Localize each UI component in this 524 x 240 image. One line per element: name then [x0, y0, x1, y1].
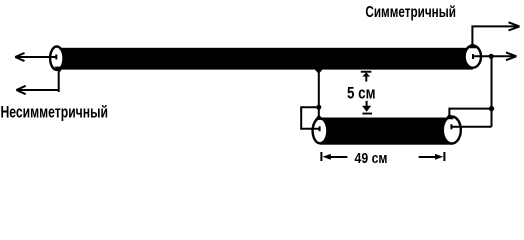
arrowhead left (shield lead)	[16, 86, 25, 94]
junction node (center output / stub feed)	[489, 54, 494, 59]
junction node (stub right shield tie)	[489, 106, 494, 111]
braid wedge (W1 right, shield tap)	[468, 42, 477, 48]
svg-text:49 см: 49 см	[355, 151, 388, 167]
dimension: 5 cm down arrowhead	[362, 106, 371, 112]
braid wedge (W2 right, shield tap)	[445, 113, 454, 119]
coax cable W1 (main line body)	[57, 48, 473, 70]
dimension: 5 cm up arrowhead	[362, 72, 370, 76]
wire: stub right center tie	[451, 126, 491, 128]
coax stub W2 (matching stub body)	[320, 118, 452, 145]
svg-text:5 см: 5 см	[347, 84, 376, 102]
dimension: 5 cm bottom tick	[362, 113, 372, 115]
center conductor tick (stub left)	[319, 126, 321, 131]
cable W1 left end face	[50, 47, 63, 70]
arrowhead right (shield output)	[509, 22, 520, 30]
dimension: 5 cm top tick	[361, 71, 372, 73]
arrowhead right (center output)	[506, 52, 516, 60]
center conductor tick (stub right)	[450, 124, 452, 129]
stub W2 left end face	[313, 118, 328, 143]
junction wedge (on W1 braid)	[315, 69, 323, 74]
dimension: 49 cm left tick	[320, 152, 322, 161]
braid wedge (W2 left, shield tap)	[315, 114, 323, 120]
wire: stub right shield tie	[449, 109, 491, 116]
wire: left center-conductor lead	[15, 56, 56, 58]
wire: right vertical riser	[491, 56, 493, 127]
dimension: 49 cm right arrowhead	[435, 154, 443, 160]
wire: left shield lead	[16, 72, 58, 92]
wire: stub left shield stem	[318, 107, 320, 115]
svg-text:Симметричный: Симметричный	[365, 4, 456, 21]
dimension: 5 cm upper shaft	[365, 76, 367, 82]
center conductor tick (right end)	[472, 54, 474, 59]
arrowhead left (center lead)	[15, 53, 24, 61]
wire: right shield output	[472, 26, 517, 44]
dimension: 49 cm left arrowhead	[323, 154, 331, 160]
wire: right center-conductor output	[473, 55, 514, 57]
svg-text:Несимметричный: Несимметричный	[1, 103, 109, 121]
center conductor tick (left end)	[55, 55, 57, 60]
stub W2 right end face	[443, 117, 461, 144]
dimension: 49 cm left shaft	[329, 156, 347, 158]
wire: stub left center U-link	[301, 107, 319, 129]
cable W1 right end face	[465, 46, 481, 68]
braid wedge (W1 left, shield tap)	[54, 67, 64, 74]
dimension: 49 cm right tick	[443, 152, 445, 161]
dimension: 5 cm lower shaft	[366, 101, 368, 108]
junction node (stub left tie)	[316, 105, 321, 110]
dimension: 49 cm right shaft	[419, 156, 437, 158]
wire: shield drop from W1 to stub left	[318, 68, 320, 107]
